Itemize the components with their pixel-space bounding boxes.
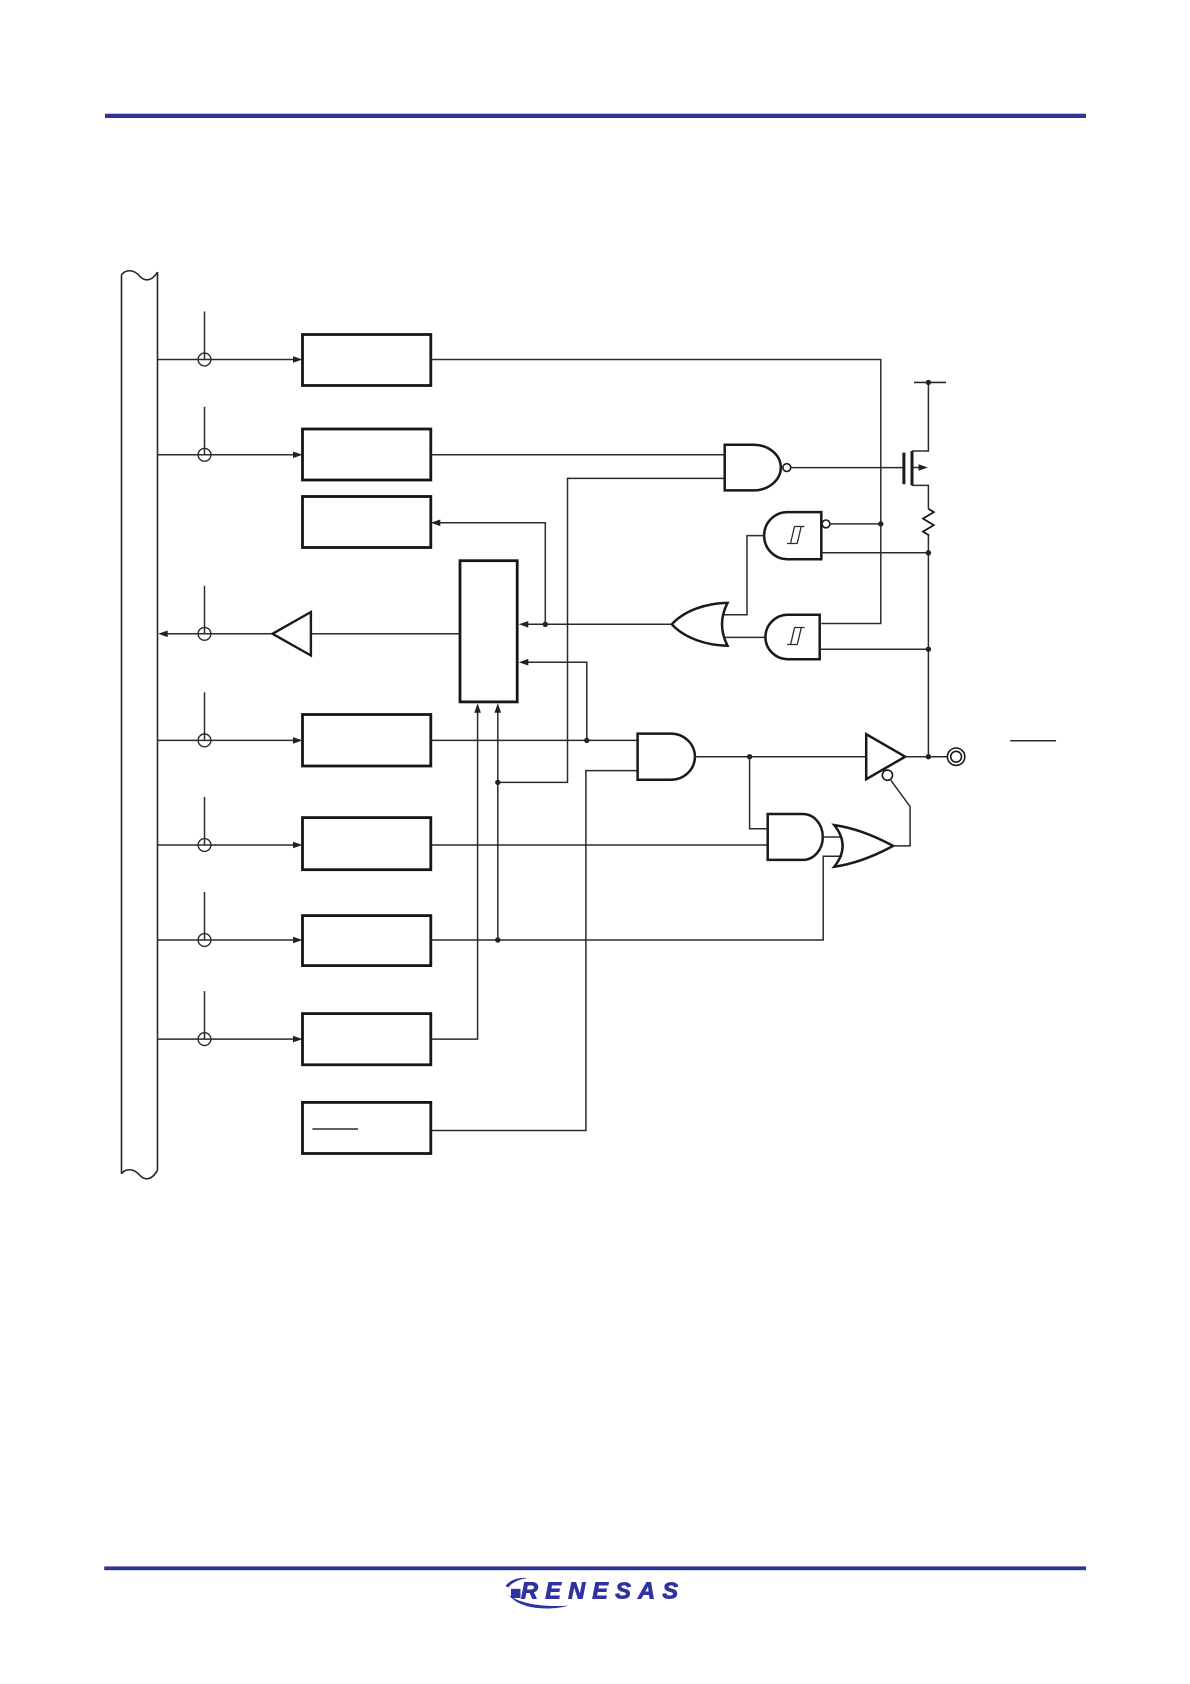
junction dot on R4 output [584,738,589,743]
wire row 4 from bus to block R4 [158,739,297,741]
transistor Q1 source wire to resistor [912,485,928,508]
register block R2 [303,429,431,480]
wire: U5 output to pin logic U2 with branch to R3 [528,623,671,625]
arrowhead into R6 [293,937,303,944]
node circle buffer row [198,627,211,640]
and gate U9 [768,814,823,860]
or gate U10 [834,825,893,867]
wire row 7 from bus to block R7 [158,1038,297,1040]
schmitt nand gate U4 (faces left) [764,512,821,559]
junction dot riser/bubble wire [878,521,883,526]
node circle row 6 [198,934,211,947]
wire: R5 output to AND U9 input B [431,844,768,846]
nand gate U3 [725,445,781,491]
node circle row 2 [198,448,211,461]
stub pin row 6 [204,892,206,940]
wire row 6 from bus to block R6 [158,939,297,941]
stub pin row 5 [204,797,206,845]
wire: U4 lower input from pad net [821,552,928,554]
register block R5 [303,818,431,870]
wire: U10 output up to U8 enable bubble [891,780,910,846]
arrowhead up into U2 bottom (left) [474,703,481,713]
junction dot on U7 output [747,754,752,759]
stub pin buffer row [204,586,206,634]
wire row 2 from bus to block R2 [158,454,297,456]
wire: U7 output to output buffer U8 [695,756,866,758]
junction dot at supply [926,380,931,385]
junction dot pad net upper [926,550,931,555]
register block R7 [303,1014,431,1065]
output buffer U8 (tri-state) [866,734,905,779]
overline label in R8 [312,1128,358,1130]
and gate U7 [638,734,695,780]
header rule [105,114,1086,118]
bubble on U3 output [783,464,791,472]
wire row 5 from bus to block R5 [158,844,297,846]
node circle row 1 [198,353,211,366]
wire: branch up to R3 input arrow [440,523,545,625]
wire: U9 output into OR U10 [823,836,842,838]
hysteresis symbol in U4 [787,527,805,544]
transistor Q1 channel bar [911,451,914,485]
wire: R2 output to NAND U3 input A [431,454,725,456]
wire: U3 output to MOSFET Q1 gate [791,467,904,469]
wire: branch up into U2 right edge [528,662,587,740]
arrowhead into R3 [431,520,441,527]
wire: R1 output to net riser [431,360,881,624]
wire: R8 output riser to AND U7 input B [431,771,638,1131]
arrowhead into R5 [293,842,303,849]
stub pin row 7 [204,991,206,1039]
arrowhead into U2 right edge lower [519,659,529,666]
arrowhead into bus [158,631,168,638]
arrowhead into U2 right edge [519,621,529,628]
wire: U4 output down to OR U5 input [724,536,765,615]
arrowhead into R7 [293,1036,303,1043]
internal data bus (left bus with wavy ends) [122,271,158,1179]
register block R1 [303,335,431,386]
node circle row 4 [198,734,211,747]
schmitt gate U6 (faces left) [765,615,819,659]
footer rule [104,1566,1086,1570]
wire: NAND U3 input B riser from node N1 [498,478,725,782]
I/O pad (double circle) [947,748,964,765]
wire: U6 lower input from pad net [820,648,929,650]
register block R6 [303,916,431,966]
arrowhead into R4 [293,737,303,744]
register block R3 [303,497,431,548]
input buffer U1 (points left toward bus) [273,612,311,656]
transistor Q1 drain wire to supply [912,382,928,451]
junction dot node N1 [495,780,500,785]
junction dot on U5 output wire [543,622,548,627]
stub pin row 4 [204,692,206,740]
bubble on U8 enable [882,770,892,780]
wire: R4 output to AND U7 input A [431,739,638,741]
node N1 riser from R6 wire up into U2 bottom [497,712,499,940]
wire row 1 from bus to block R1 [158,359,297,361]
node circle row 5 [198,839,211,852]
arrowhead up into U2 bottom (right) [495,703,502,713]
overline of pin name label [1010,740,1056,742]
stub pin row 1 [204,312,206,360]
arrowhead into R1 [293,356,303,363]
resistor (pull-up) [923,509,934,537]
wire: R6 output riser to OR U10 lower input [431,856,842,940]
power supply bar VCC [914,381,946,383]
bubble on U4 inverted input [822,520,830,528]
transistor Q1 (pull-up MOS) gate bar [902,453,905,485]
hysteresis symbol in U6 [787,628,805,645]
wire: U4 bubble input from node on riser [830,523,881,525]
node circle row 7 [198,1033,211,1046]
wire: U8 output to pad [905,756,947,758]
junction dot at pad net bottom [926,754,931,759]
junction dot on R6 output [495,937,500,942]
stub pin row 2 [204,407,206,455]
register block R8 [303,1102,431,1153]
or gate U5 (faces left) [672,603,728,646]
arrowhead into R2 [293,452,303,459]
register block R4 [303,715,431,767]
wire buffer row into bus [167,633,273,635]
transistor Q1 substrate arrow [914,467,920,469]
svg-text:RENESAS: RENESAS [521,1578,682,1604]
wire: R7 output riser up into U2 bottom [431,712,478,1039]
wire: U6 output to OR U5 lower input [724,636,766,638]
pin control logic block U2 (tall rectangle) [460,561,517,702]
wire from pin logic block to buffer U1 [311,633,460,635]
wire: resistor bottom down to pad net [927,537,929,757]
wire: branch down to AND U9 input A [750,757,768,829]
junction dot pad net mid [926,647,931,652]
